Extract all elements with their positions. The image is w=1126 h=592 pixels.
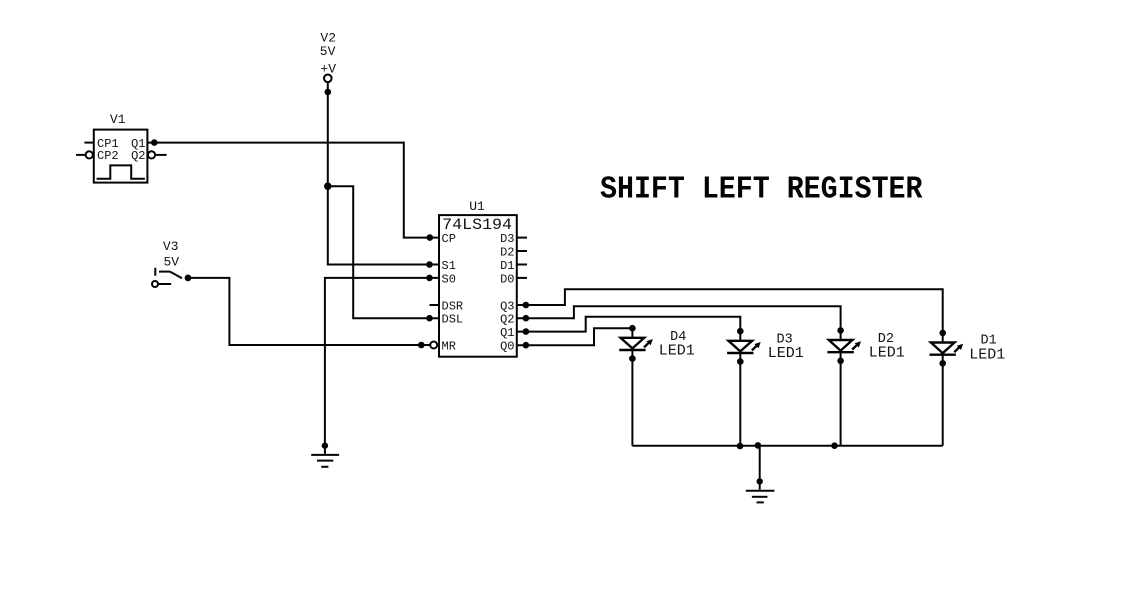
ground bus wire — [632, 445, 942, 447]
pin stub U1.D1 — [517, 264, 527, 266]
LED D1 — [930, 330, 964, 367]
pin bubble U1.MR — [430, 342, 437, 349]
svg-text:LED1: LED1 — [768, 345, 804, 362]
junction dot U1.MR — [418, 342, 425, 349]
LED D3 — [727, 328, 761, 365]
wire LED D2 cathode to bus — [840, 361, 842, 446]
junction dot V2 branch — [324, 182, 332, 190]
svg-text:LED1: LED1 — [659, 343, 695, 360]
junction dot U1.Q1 — [523, 328, 530, 335]
wire U1.Q1 to LED D3 — [517, 317, 741, 332]
junction dot U1.Q2 — [523, 315, 530, 322]
svg-text:D3: D3 — [500, 232, 514, 246]
svg-text:D2: D2 — [500, 245, 514, 259]
ground GND2 — [746, 478, 775, 502]
junction dot bus near D2 — [831, 442, 838, 449]
pin stub U1.D0 — [517, 277, 527, 279]
svg-text:CP: CP — [442, 232, 456, 246]
svg-text:Q2: Q2 — [500, 313, 514, 327]
LED D2 — [827, 327, 861, 364]
junction dot U1.S0 — [426, 275, 433, 282]
power supply V2 terminal — [324, 75, 332, 93]
svg-text:Q2: Q2 — [131, 149, 145, 163]
wire LED D1 cathode to bus — [942, 363, 944, 446]
svg-text:LED1: LED1 — [869, 345, 905, 362]
wire bus to ground GND2 — [759, 446, 761, 482]
svg-text:D1: D1 — [500, 259, 514, 273]
svg-text:MR: MR — [442, 340, 456, 354]
svg-text:DSR: DSR — [442, 299, 464, 313]
junction dot U1.DSL — [426, 315, 433, 322]
wire U1.Q2 to LED D2 — [517, 306, 841, 330]
junction dot V1.Q1 — [151, 139, 158, 146]
junction dot bus ground tap — [755, 442, 762, 449]
wire LED D4 cathode to bus — [631, 359, 633, 446]
ground GND1 — [311, 442, 339, 466]
wire U1.Q0 to LED D4 — [517, 328, 633, 345]
pin bubble V1.Q2 — [148, 151, 167, 158]
svg-text:S1: S1 — [442, 259, 456, 273]
junction dot V3 pole — [185, 275, 192, 282]
svg-text:D0: D0 — [500, 272, 514, 286]
svg-text:Q0: Q0 — [500, 340, 514, 354]
pulse source V1 body — [94, 130, 148, 183]
pin stub U1.D2 — [517, 250, 527, 252]
svg-text:U1: U1 — [469, 199, 485, 214]
svg-text:S0: S0 — [442, 272, 456, 286]
wire V2 branch to U1.DSL — [328, 186, 439, 318]
svg-text:LED1: LED1 — [969, 346, 1005, 363]
svg-text:SHIFT LEFT REGISTER: SHIFT LEFT REGISTER — [600, 173, 923, 208]
pin bubble V1.CP2 — [76, 151, 93, 158]
pin stub V1.CP1 — [84, 142, 93, 144]
wire V1.Q1 to U1.CP — [147, 143, 439, 238]
svg-text:DSL: DSL — [442, 313, 464, 327]
svg-text:CP2: CP2 — [97, 149, 119, 163]
svg-text:+V: +V — [320, 61, 336, 76]
junction dot V2 — [325, 89, 332, 96]
svg-text:Q3: Q3 — [500, 299, 514, 313]
junction dot U1.Q0 — [523, 342, 530, 349]
wire V2 to U1.S1 — [328, 92, 439, 265]
svg-text:5V: 5V — [320, 44, 336, 59]
svg-text:Q1: Q1 — [500, 326, 514, 340]
wire LED D3 cathode to bus — [739, 362, 741, 446]
svg-text:5V: 5V — [163, 254, 179, 269]
svg-text:V1: V1 — [110, 112, 126, 127]
LED D4 — [619, 325, 653, 362]
svg-text:V3: V3 — [163, 239, 179, 254]
wire U1.Q3 to LED D1 — [517, 289, 943, 333]
IC U1 74LS194 body — [439, 215, 517, 357]
wire U1.S0 to ground GND1 — [325, 278, 439, 446]
switch V3 — [152, 268, 182, 287]
wire V3 to U1.MR — [188, 278, 430, 345]
pin stub U1.DSR — [430, 304, 440, 306]
pin stub U1.D3 — [517, 237, 527, 239]
junction dot U1.S1 — [426, 261, 433, 268]
junction dot U1.CP — [427, 234, 434, 241]
junction dot U1.Q3 — [523, 302, 530, 309]
junction dot bus D3 — [737, 443, 744, 450]
